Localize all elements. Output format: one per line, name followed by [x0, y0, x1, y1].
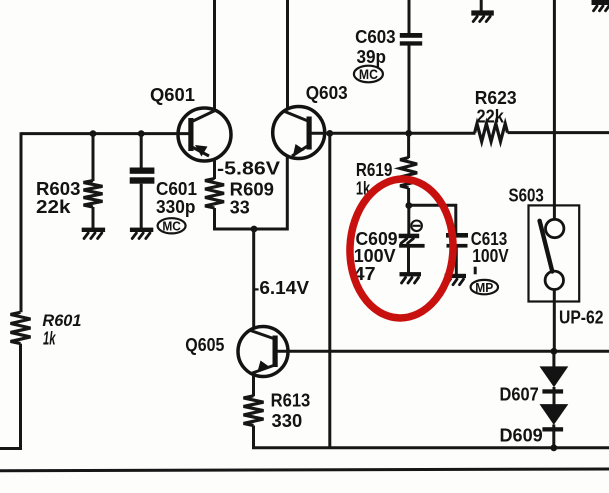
wire vertical from base line down to bottom bus [328, 133, 331, 447]
label Q601 [150, 84, 195, 105]
wire right vertical to S603 [553, 0, 556, 220]
oval MP for C613 [471, 280, 498, 295]
label R623 value 22k [477, 105, 505, 126]
svg-text:R601: R601 [42, 312, 81, 330]
label -6.14V [253, 277, 310, 298]
wire R603 top lead [92, 134, 95, 181]
svg-text:R613: R613 [271, 390, 311, 411]
node C609 junction [405, 202, 412, 209]
svg-text:330p: 330p [156, 196, 195, 217]
label C609 value 47 [354, 263, 376, 284]
label C613 [471, 228, 508, 249]
resistor R619 [400, 158, 417, 189]
label R613 [271, 390, 311, 411]
ground top right corner [592, 0, 609, 11]
resistor R623 [475, 124, 508, 142]
svg-text:MC: MC [359, 67, 378, 82]
wire base line left section [21, 132, 190, 135]
label R601 [42, 312, 81, 330]
wire left vertical down to R601 [20, 132, 23, 312]
svg-text:MP: MP [475, 281, 493, 295]
label C609 100V [354, 245, 397, 266]
label UP-62 [559, 307, 604, 328]
label D609 [500, 424, 543, 445]
wire Q605 base line to right edge [277, 350, 609, 353]
svg-text:33: 33 [230, 197, 250, 218]
diode D609 [540, 404, 569, 431]
label C603 [355, 26, 396, 47]
wire C609 to ground [407, 248, 410, 273]
label R619 value 1k [356, 178, 371, 199]
wire top to C603 [408, 0, 411, 34]
transistor Q603 [273, 107, 325, 159]
svg-text:1k: 1k [43, 329, 56, 349]
tick between 100V and MP [474, 267, 477, 275]
oval MC for C603 [354, 66, 383, 83]
label R619 [356, 159, 393, 180]
wire bottom rail [0, 469, 609, 471]
label R603 [36, 178, 80, 199]
label C601 [156, 178, 197, 199]
capacitor C609 [399, 234, 425, 248]
svg-text:D607: D607 [500, 383, 539, 404]
wire Q601 emitter lead [213, 159, 216, 180]
label D607 [500, 383, 539, 404]
label R613 value 330 [272, 410, 303, 431]
node S603 base line junction [551, 348, 558, 355]
svg-text:S603: S603 [509, 184, 544, 205]
label S603 [509, 184, 544, 205]
label R609 [230, 178, 274, 199]
wire D607 to D609 [553, 387, 556, 405]
node R603 top [90, 130, 97, 137]
wire C613 to ground [455, 248, 458, 275]
svg-text:C603: C603 [355, 26, 396, 47]
resistor R609 [205, 179, 224, 209]
label C603 value 39p [357, 47, 387, 67]
svg-text:-6.14V: -6.14V [253, 277, 310, 298]
svg-text:39p: 39p [357, 47, 387, 67]
polarity minus symbol [411, 221, 422, 232]
label Q603 [306, 83, 348, 103]
svg-text:Q605: Q605 [185, 335, 224, 355]
wire node to D607 [552, 351, 555, 367]
label C601 value 330p [156, 196, 195, 217]
label R609 value 33 [230, 197, 250, 218]
wire S603 bottom to base line [553, 289, 556, 351]
wire Q605 emitter lead [252, 374, 255, 396]
capacitor C603 [400, 33, 422, 46]
label C613 100V [472, 245, 509, 266]
svg-text:330: 330 [272, 410, 303, 431]
svg-text:Q603: Q603 [306, 83, 348, 103]
label R601 value 1k [43, 329, 56, 349]
node bottom bus junction [550, 444, 557, 451]
wire R619 bottom lead [407, 188, 410, 206]
svg-text:MC: MC [162, 219, 181, 234]
wire Q603 base line to right edge [311, 132, 476, 135]
ground C609 [400, 272, 422, 283]
wire Q603 collector to top edge [286, 0, 289, 110]
wire branch to C613 [409, 205, 456, 233]
capacitor C613 [446, 233, 468, 248]
wire R609 bottom to Q603 emitter [215, 156, 288, 229]
node C601 top [138, 130, 145, 137]
resistor R601 [11, 312, 31, 343]
node at vertical top [326, 130, 333, 137]
label Q605 [185, 335, 224, 355]
resistor R603 [84, 181, 103, 207]
oval MC for C601 [158, 218, 186, 233]
diode D607 [540, 366, 569, 393]
label C609 [356, 228, 398, 249]
label R603 value 22k [36, 196, 71, 217]
resistor R613 [244, 396, 264, 426]
svg-text:100V: 100V [472, 245, 509, 266]
wire D609 to bottom bus [552, 425, 555, 448]
wire R603 bottom lead [92, 207, 95, 228]
wire R623 right to right edge [508, 131, 609, 134]
svg-text:UP-62: UP-62 [559, 307, 604, 328]
wire Q601 collector to top edge [213, 0, 216, 111]
label R623 [475, 87, 517, 108]
wire C601 top lead [140, 134, 143, 168]
ground C601 [130, 228, 153, 239]
svg-text:Q601: Q601 [150, 84, 195, 105]
wire node to C609 [407, 206, 410, 235]
label -5.86V [217, 158, 281, 179]
svg-text:D609: D609 [500, 424, 543, 445]
wire R601 bottom to lower left hook [0, 344, 21, 449]
wire node down to Q605 collector [252, 229, 255, 330]
ground R603 [82, 228, 105, 239]
transistor Q605 [238, 327, 288, 377]
node Q605 collector branch [251, 226, 258, 233]
svg-text:22k: 22k [36, 196, 71, 217]
wire R619 top lead [407, 133, 410, 158]
wire R613 bottom to bottom bus [254, 426, 609, 448]
wire C603 to node at base line [408, 46, 411, 134]
ground C613 [445, 274, 467, 285]
ground top center [471, 0, 494, 22]
transistor Q601 [178, 108, 231, 161]
capacitor C601 [130, 168, 155, 184]
annotation red ellipse [347, 177, 456, 320]
svg-text:22k: 22k [477, 105, 505, 126]
svg-text:-5.86V: -5.86V [217, 158, 281, 179]
wire C601 bottom lead [140, 184, 143, 228]
node C603 R619 junction [405, 130, 412, 137]
switch S603 [529, 205, 580, 301]
